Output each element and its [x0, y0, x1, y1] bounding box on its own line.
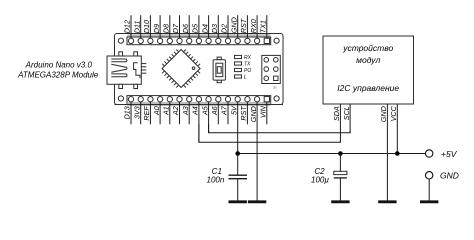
svg-text:D12: D12	[123, 20, 132, 33]
svg-text:GND: GND	[229, 17, 238, 33]
pin A0 (bottom), wire and label	[152, 97, 163, 125]
mounting holes	[118, 38, 279, 101]
pin RST (bottom), wire and label	[239, 97, 250, 125]
svg-text:A7: A7	[220, 105, 229, 116]
pin D10 (top), wire and label	[142, 15, 153, 43]
svg-text:D2: D2	[220, 24, 229, 33]
svg-text:+5V: +5V	[441, 149, 458, 159]
svg-text:A4: A4	[191, 106, 200, 116]
junction 5V pin / C1	[235, 151, 240, 156]
svg-text:100µ: 100µ	[311, 176, 329, 185]
pin D11 (top), wire and label	[132, 15, 143, 43]
svg-text:A0: A0	[152, 106, 161, 116]
pin D3 (top), wire and label	[210, 15, 221, 43]
svg-text:D3: D3	[210, 24, 219, 33]
I2C device module U2	[323, 36, 414, 104]
svg-text:D8: D8	[162, 24, 171, 33]
wire A5 to SCL	[209, 124, 351, 133]
svg-text:D9: D9	[152, 24, 161, 33]
pin D6 (top), wire and label	[181, 15, 192, 43]
svg-text:VIN: VIN	[259, 105, 268, 118]
pin A5 (bottom), wire and label	[200, 97, 211, 133]
ground (device GND wire)	[378, 200, 396, 203]
svg-text:A3: A3	[181, 106, 190, 116]
svg-text:D4: D4	[200, 24, 209, 33]
top pin header strip	[127, 34, 271, 45]
pin D13 (bottom), wire and label	[123, 97, 134, 125]
svg-text:D7: D7	[171, 23, 180, 33]
svg-text:I2C управление: I2C управление	[337, 83, 399, 93]
svg-text:SDA: SDA	[332, 106, 341, 121]
MCU U1 ATMEGA328P (rotated 45deg)	[162, 50, 200, 88]
pin VIN (bottom), wire and label	[259, 97, 270, 125]
LED L	[235, 74, 248, 80]
svg-text:REF: REF	[142, 106, 151, 121]
svg-text:TX1: TX1	[259, 20, 268, 33]
pin 3V3 (bottom), wire and label	[132, 97, 143, 125]
capacitor C2 100u electrolytic	[311, 154, 347, 201]
svg-text:1c: 1c	[273, 86, 277, 90]
svg-text:D5: D5	[191, 23, 200, 33]
LED PO	[235, 68, 252, 74]
svg-text:GND: GND	[440, 170, 459, 180]
svg-text:100n: 100n	[207, 176, 225, 185]
pin 5V (bottom), wire and label	[229, 97, 240, 154]
svg-text:C2: C2	[314, 167, 325, 176]
pin RX0 (top), wire and label	[249, 15, 260, 43]
svg-text:SCL: SCL	[342, 106, 351, 120]
svg-text:D10: D10	[142, 20, 151, 33]
svg-text:A5: A5	[200, 105, 209, 116]
junction VCC	[395, 151, 400, 156]
pin D12 (top), wire and label	[123, 15, 134, 43]
pin REF (bottom), wire and label	[142, 97, 153, 125]
ICSP header	[262, 55, 281, 83]
device pin GND wire and label	[379, 104, 388, 201]
svg-text:D11: D11	[132, 21, 141, 34]
svg-text:RX: RX	[244, 55, 252, 61]
ground (GND terminal)	[420, 200, 438, 203]
LED RX	[235, 55, 252, 61]
bottom pin header strip	[115, 96, 284, 106]
pin GND (bottom), wire and label	[249, 97, 260, 201]
pin D8 (top), wire and label	[162, 15, 173, 43]
pin A6 (bottom), wire and label	[210, 97, 221, 125]
pin A3 (bottom), wire and label	[181, 97, 192, 125]
+5V rail	[238, 153, 426, 155]
svg-text:PO: PO	[244, 68, 251, 74]
svg-text:ATMEGA328P Module: ATMEGA328P Module	[17, 71, 99, 80]
svg-text:A1: A1	[162, 106, 171, 116]
junction C2	[338, 151, 343, 156]
reset button S1	[213, 57, 225, 83]
svg-text:A2: A2	[171, 106, 180, 116]
svg-text:D13: D13	[123, 106, 132, 119]
pin D5 (top), wire and label	[191, 15, 202, 43]
device pin VCC wire and label	[389, 104, 398, 154]
Arduino Nano board outline	[115, 34, 284, 105]
pin A1 (bottom), wire and label	[162, 97, 173, 125]
ground (C2)	[331, 200, 349, 203]
svg-text:3V3: 3V3	[132, 106, 141, 119]
svg-text:GND: GND	[249, 106, 258, 122]
pin A4 (bottom), wire and label	[191, 97, 202, 143]
pin A2 (bottom), wire and label	[171, 97, 182, 125]
pin TX1 (top), wire and label	[259, 15, 270, 43]
ground (Arduino GND wire)	[248, 200, 266, 203]
capacitor C1 100n	[207, 154, 247, 201]
pin D4 (top), wire and label	[200, 15, 211, 43]
pin RST (top), wire and label	[239, 15, 250, 43]
pin D9 (top), wire and label	[152, 15, 163, 43]
module label: Arduino Nano	[17, 61, 99, 80]
svg-text:модул: модул	[356, 55, 380, 65]
svg-text:устройство: устройство	[342, 43, 393, 53]
USB mini connector J1	[107, 52, 146, 89]
device pin SDA wire and label	[332, 104, 341, 142]
svg-text:C1: C1	[212, 167, 222, 176]
svg-text:GND: GND	[379, 106, 388, 122]
svg-text:TX: TX	[244, 61, 251, 67]
svg-text:L: L	[244, 74, 247, 80]
LED TX	[235, 61, 252, 67]
svg-text:Arduino Nano v3.0: Arduino Nano v3.0	[25, 61, 93, 70]
svg-text:VCC: VCC	[389, 105, 398, 121]
device pin SCL wire and label	[342, 104, 351, 133]
terminal GND	[426, 170, 459, 200]
svg-text:D6: D6	[181, 24, 190, 33]
pin A7 (bottom), wire and label	[220, 97, 231, 125]
svg-text:RX0: RX0	[249, 19, 258, 33]
terminal +5V	[426, 149, 458, 159]
wire A4 to SDA	[199, 124, 341, 142]
svg-text:A6: A6	[210, 106, 219, 116]
pin D7 (top), wire and label	[171, 15, 182, 43]
svg-text:RST: RST	[239, 106, 248, 121]
svg-text:RST: RST	[239, 18, 248, 33]
svg-text:5V: 5V	[229, 105, 238, 115]
pin GND (top), wire and label	[229, 15, 240, 43]
ground (C1)	[229, 200, 247, 203]
pin D2 (top), wire and label	[220, 15, 231, 43]
